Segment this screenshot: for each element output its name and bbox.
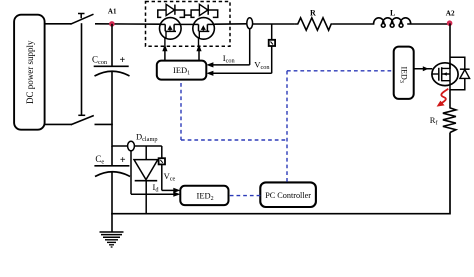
blue dashed vertical to PC controller — [286, 71, 288, 183]
switch S1 blade — [71, 14, 94, 24]
wire S1 to A1 and to dashed box — [95, 23, 161, 25]
arrow IED3 to Q3 gate — [414, 68, 433, 70]
blue dashed to IED3 — [287, 70, 394, 72]
wire Vcon sensor down — [271, 46, 273, 73]
Q2 wire through — [193, 23, 199, 25]
wire Q3 to Rf — [449, 90, 451, 109]
svg-text:+: + — [120, 155, 126, 166]
diode D1 — [166, 4, 175, 15]
Q3 glyph — [432, 73, 439, 75]
Vce arrow to IED2 — [162, 189, 175, 191]
Q2 mosfet glyph — [199, 24, 210, 31]
diode D2 loop — [191, 10, 199, 17]
Vcon feedback line — [212, 72, 272, 74]
blue dashed IED2 to PC — [230, 195, 260, 197]
wire ellipse to R — [252, 23, 294, 25]
switch linkage vertical — [81, 23, 83, 115]
svg-text:PC Controller: PC Controller — [265, 191, 311, 200]
Vce sensor line — [161, 146, 163, 158]
wire ellipse to Vce tap — [134, 145, 161, 147]
blue dashed IED1 to bus — [180, 83, 182, 140]
Q1 gate lead — [165, 31, 167, 38]
mosfet Q1 circle — [160, 18, 182, 40]
wire R to L — [333, 23, 375, 25]
resistor Rf — [443, 108, 456, 133]
voltage sensor square Vce — [159, 158, 165, 164]
wire device2 to ellipse — [214, 23, 247, 25]
DC power supply box — [14, 15, 44, 130]
PC Controller box — [260, 182, 316, 207]
Q1 mosfet glyph — [165, 24, 176, 31]
left bus A1 down to Ccon — [111, 24, 113, 67]
gate arrow 2 from IED1 — [198, 49, 200, 60]
wire supply top to switch S1 — [45, 23, 72, 25]
SSD device 1 — [158, 4, 185, 39]
left bus Ce to bottom bus — [111, 172, 113, 215]
wire S2 to left bus — [95, 123, 113, 125]
IED3 box — [394, 47, 414, 99]
gate lead circle1 to arrow — [164, 37, 166, 46]
Id feedback line — [130, 151, 132, 194]
wire Vce sensor down — [161, 164, 163, 190]
ground — [100, 214, 124, 247]
wire between devices — [181, 23, 193, 25]
current sensor ellipse Icon — [247, 18, 253, 29]
svg-text:+: + — [120, 55, 126, 66]
gate lead circle2 to arrow — [198, 37, 200, 46]
Q2 gate lead — [198, 31, 200, 38]
svg-text:R: R — [310, 9, 316, 18]
resistor R — [295, 18, 333, 30]
capacitor Ce — [94, 154, 130, 177]
diode D1 loop — [158, 10, 166, 17]
wire supply bottom to switch S2 — [45, 123, 72, 125]
inductor L — [374, 18, 411, 27]
current sensor ellipse Id — [128, 141, 135, 151]
bottom bus — [111, 213, 450, 215]
left bus Ccon to junction — [111, 72, 113, 147]
gate arrow 1 from IED1 — [164, 49, 166, 60]
mosfet Q2 circle — [193, 18, 215, 40]
diode Dclamp — [145, 146, 147, 160]
svg-text:A1: A1 — [108, 7, 117, 15]
wire L to A2 — [407, 23, 450, 25]
link between device loops — [184, 14, 191, 16]
switch S1 contact T — [78, 14, 85, 19]
Q3 main line through — [449, 63, 451, 91]
blue dashed horizontal — [181, 139, 288, 141]
svg-text:DC power supply: DC power supply — [25, 40, 35, 104]
red current arrow — [441, 89, 448, 104]
node A2 — [447, 20, 453, 26]
Q1 wire through — [160, 23, 166, 25]
diode D3 branch — [450, 57, 465, 90]
right vertical A2 down to Q3 — [449, 23, 451, 69]
Icon feedback line — [249, 29, 251, 65]
svg-text:L: L — [390, 9, 395, 18]
node A1 — [109, 21, 115, 27]
diode D2 — [199, 4, 208, 15]
dashed SSD box — [146, 2, 231, 47]
IED2 box — [180, 186, 228, 205]
Vcon tap junction and sensor — [271, 24, 273, 40]
SSD device 2 — [191, 4, 218, 39]
svg-text:A2: A2 — [446, 10, 455, 18]
IED1 box — [157, 61, 207, 80]
capacitor Ccon — [92, 55, 130, 77]
mosfet Q3 circle — [432, 63, 458, 86]
switch S2 contact T — [78, 114, 85, 116]
wire Rf to bottom bus — [449, 133, 451, 215]
switch S2 blade — [71, 116, 94, 125]
voltage sensor square Vcon — [269, 40, 275, 46]
Dclamp branch wire — [112, 145, 128, 147]
left bus junction to Ce — [111, 146, 113, 166]
diode D3 — [460, 70, 470, 79]
